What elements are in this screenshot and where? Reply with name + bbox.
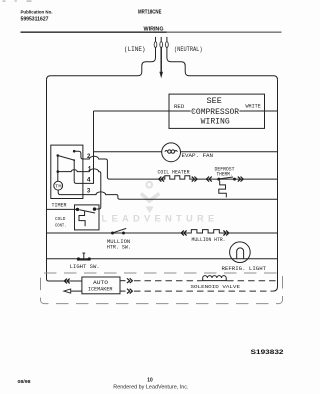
ground arrow: [159, 72, 163, 79]
defrost thermostat S3: [217, 177, 236, 197]
solenoid valve L1: [201, 276, 227, 281]
label AUTO ICEMAKER: [88, 280, 113, 293]
svg-text:AUTO: AUTO: [93, 280, 108, 286]
mullion heater switch S2: [111, 228, 126, 234]
timer switch arm: [58, 156, 74, 161]
svg-text:THERM.: THERM.: [217, 172, 233, 178]
wire: evap fan to neutral bus: [181, 151, 278, 153]
svg-text:MULLION HTR.: MULLION HTR.: [192, 237, 226, 243]
svg-text:LIGHT SW.: LIGHT SW.: [70, 264, 100, 270]
svg-text:Publication No.: Publication No.: [21, 9, 53, 15]
wire: mullion heater to neutral bus: [220, 232, 278, 234]
wire: solenoid valve to neutral: [227, 280, 277, 282]
wire: light row: [47, 258, 278, 260]
connector to icemaker: [64, 279, 69, 284]
coil heater element R1: [164, 176, 191, 179]
ground wire: [160, 47, 162, 72]
svg-text:ICEMAKER: ICEMAKER: [88, 287, 113, 293]
timer node D: [57, 170, 60, 173]
evap fan motor: [162, 143, 181, 162]
refrigerator light DS1: [230, 242, 251, 263]
svg-text:TIMER: TIMER: [52, 202, 68, 208]
wire: left line bus: [47, 80, 82, 281]
auto icemaker box: [82, 277, 120, 294]
timer wire C to terminal 4: [74, 160, 83, 183]
header: publication no: [21, 9, 53, 22]
timer T1 box: [51, 145, 83, 198]
connector from icemaker top: [127, 278, 132, 283]
timer wire D to terminal 1 with hop: [58, 170, 83, 172]
svg-text:MRT18CNE: MRT18CNE: [138, 9, 162, 15]
wire: heater to defrost thermostat: [191, 178, 278, 180]
timer contact node B: [57, 154, 60, 157]
label DEFROST THERM.: [215, 166, 235, 177]
wire: terminal 3 to neutral bus: [83, 192, 278, 199]
wire: right neutral bus: [273, 80, 278, 291]
icemaker return stub arrow: [64, 289, 82, 293]
svg-text:10: 10: [147, 377, 152, 383]
svg-text:4: 4: [87, 176, 91, 183]
connector to defrost thermostat: [206, 177, 211, 182]
svg-text:SEE: SEE: [207, 97, 223, 106]
connector from defrost thermostat: [238, 177, 243, 182]
svg-text:(LINE): (LINE): [124, 46, 146, 53]
timer common vertical B-D: [57, 156, 59, 182]
wire: evap fan feed: [94, 151, 162, 153]
wire: icemaker bottom output stub: [120, 290, 126, 292]
mullion heater element R2: [190, 230, 220, 233]
wire: line cord to top border: [47, 47, 156, 80]
wire: mullion heater row left: [47, 232, 191, 234]
svg-text:Rendered by LeadVenture, Inc.: Rendered by LeadVenture, Inc.: [113, 384, 188, 390]
timer wire A to terminal 2: [74, 151, 83, 159]
svg-text:EVAP. FAN: EVAP. FAN: [182, 152, 214, 159]
wire: compressor feed RED to WHITE: [94, 110, 278, 112]
wire: neutral cord to top border: [167, 47, 278, 80]
svg-text:(NEUTRAL): (NEUTRAL): [174, 46, 203, 53]
svg-text:5995311627: 5995311627: [21, 16, 49, 22]
svg-text:CONT.: CONT.: [55, 222, 67, 228]
connector from mullion heater: [223, 231, 228, 236]
wire: icemaker top output stub: [120, 280, 126, 282]
connector from coil heater: [192, 177, 197, 182]
cold control S1: [75, 205, 100, 230]
wire: bus from compressor feed to timer terminal 4: [83, 111, 94, 183]
timer motor TM: [54, 181, 63, 190]
svg-text:SOLENOID VALVE: SOLENOID VALVE: [191, 284, 241, 290]
svg-text:WIRING: WIRING: [201, 118, 230, 127]
svg-text:REFRIG. LIGHT: REFRIG. LIGHT: [222, 266, 267, 272]
wire: line bus to cold control: [47, 208, 78, 210]
connector to mullion heater: [181, 231, 186, 236]
label COLD CONT.: [55, 216, 67, 228]
connector from icemaker bottom: [127, 289, 132, 294]
compressor box U1: [169, 94, 265, 128]
wire: dashed icemaker bottom to neutral bus: [134, 290, 273, 292]
svg-text:S193832: S193832: [251, 349, 284, 356]
connector to coil heater: [159, 177, 164, 182]
label SEE COMPRESSOR WIRING: [191, 97, 239, 127]
svg-text:HTR. SW.: HTR. SW.: [107, 245, 131, 251]
watermark logo: [141, 182, 159, 213]
svg-text:TM: TM: [55, 185, 62, 189]
svg-text:COIL HEATER: COIL HEATER: [158, 170, 190, 176]
plug blade neutral: [166, 37, 169, 48]
svg-text:08/98: 08/98: [18, 379, 31, 384]
timer arm tip node C: [73, 159, 75, 161]
plug blade ground: [160, 37, 163, 48]
timer contact node A: [73, 150, 76, 153]
wire: terminal 1 to cold control: [83, 169, 101, 209]
timer motor wire to terminal 3: [58, 190, 83, 195]
svg-text:COMPRESSOR: COMPRESSOR: [191, 108, 239, 117]
wire: dashed to solenoid valve: [134, 280, 201, 282]
wire: terminal 2 to defrost heater: [83, 156, 164, 179]
svg-text:LEADVENTURE: LEADVENTURE: [102, 213, 219, 223]
svg-text:RED: RED: [174, 104, 184, 110]
plug blade line: [154, 37, 157, 48]
svg-text:COLD: COLD: [55, 216, 66, 222]
header rule: [21, 31, 282, 33]
svg-text:WHITE: WHITE: [246, 104, 261, 110]
svg-text:3: 3: [87, 188, 91, 195]
light switch S4: [77, 253, 91, 261]
icemaker option dashed box: [41, 273, 283, 304]
scan specks top edge: [3, 0, 32, 1]
label MULLION HTR. SW.: [107, 239, 131, 251]
